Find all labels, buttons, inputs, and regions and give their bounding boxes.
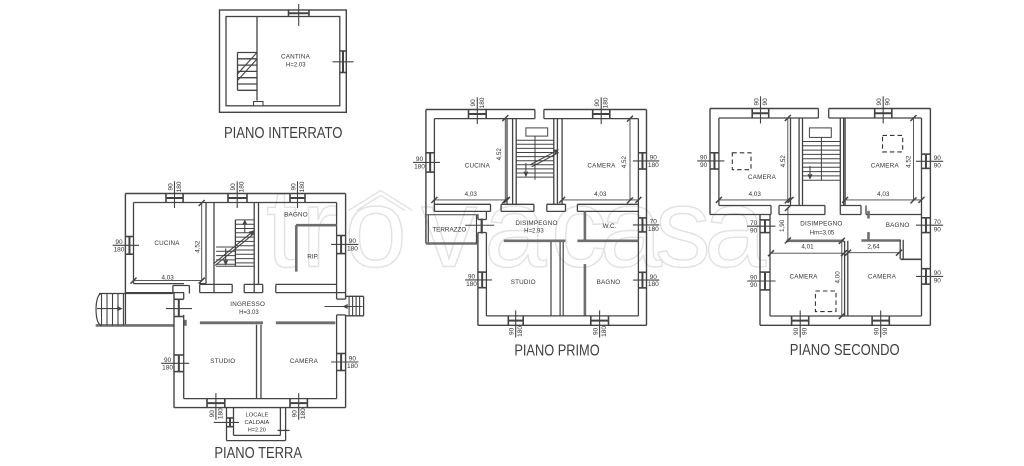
secondo top outer wall	[710, 108, 818, 110]
svg-text:4,52: 4,52	[780, 155, 787, 168]
svg-text:4,03: 4,03	[161, 274, 174, 281]
dimension 4,03 primo cucina width	[434, 199, 507, 201]
terrazzo door	[477, 220, 487, 233]
secondo camera tl east wall	[790, 118, 792, 206]
svg-text:CAMERA: CAMERA	[871, 162, 900, 169]
svg-text:PIANO SECONDO: PIANO SECONDO	[790, 342, 900, 359]
dimension 4,03 secondo camera tr width	[845, 199, 921, 201]
terra left outer wall	[124, 194, 126, 326]
camera bl north wall	[786, 240, 844, 243]
svg-text:180: 180	[162, 364, 173, 371]
svg-text:90: 90	[230, 183, 237, 191]
svg-text:o: o	[345, 166, 407, 291]
svg-text:1,90: 1,90	[779, 219, 786, 232]
studio west inner wall	[485, 211, 487, 316]
svg-text:90: 90	[115, 239, 123, 246]
svg-text:90: 90	[416, 156, 424, 163]
secondo west recess wall	[759, 215, 761, 326]
svg-text:90: 90	[468, 274, 476, 281]
dimension 4,03 terra cucina width	[134, 280, 202, 282]
terra top outer wall	[125, 193, 345, 195]
dimension 4,03 secondo camera tl width	[719, 199, 791, 201]
window 90/180 primo bagno bottom	[591, 320, 609, 322]
window 70/90 secondo bagno right	[925, 218, 927, 233]
window 90/90 secondo camera tr right	[925, 154, 927, 168]
window 90/180 terra studio bottom	[207, 402, 225, 404]
bagno secondo south wall	[861, 239, 900, 242]
svg-text:a: a	[704, 166, 767, 291]
window 90/180 terra camera right	[340, 354, 342, 371]
svg-text:INGRESSO: INGRESSO	[230, 301, 265, 308]
secondo right inner wall	[921, 118, 923, 316]
terra west lower outer wall	[173, 293, 175, 408]
locale caldaia box outer	[226, 408, 228, 441]
window 90/180 primo studio left	[481, 272, 483, 288]
dimension 4,52 terra cucina height	[201, 203, 203, 281]
watermark house roof over o	[349, 191, 413, 211]
svg-text:TERRAZZO: TERRAZZO	[432, 226, 466, 233]
terra stair treads upper flight	[235, 219, 254, 221]
caldaia right tick	[278, 429, 290, 431]
primo bottom inner wall	[486, 315, 638, 317]
porch curved end	[96, 294, 101, 326]
stair east wall	[253, 203, 255, 293]
wc west wall	[584, 211, 587, 240]
svg-text:4,52: 4,52	[496, 148, 503, 161]
svg-text:H=2.20: H=2.20	[248, 428, 266, 434]
svg-text:90: 90	[167, 183, 174, 191]
porch entry door	[178, 299, 180, 316]
svg-text:180: 180	[517, 326, 524, 337]
svg-text:90: 90	[470, 99, 477, 107]
svg-text:90: 90	[762, 98, 769, 106]
secondo stair stringer	[820, 137, 822, 180]
primo right outer wall	[646, 110, 648, 326]
svg-text:4,52: 4,52	[621, 155, 628, 168]
svg-text:90: 90	[876, 98, 883, 106]
secondo left inner wall	[718, 118, 720, 206]
terra stair diagonal	[214, 231, 254, 263]
svg-text:90: 90	[934, 162, 942, 169]
window 90/90 secondo camera tr top	[875, 112, 892, 114]
window 90/180 terra studio left	[178, 355, 180, 372]
porch parapet	[96, 324, 174, 327]
svg-text:180: 180	[176, 181, 183, 192]
dimension 4,00 secondo camera bl height	[841, 241, 843, 316]
svg-text:STUDIO: STUDIO	[210, 358, 235, 365]
svg-text:H=3.03: H=3.03	[239, 310, 259, 316]
rip partition walls	[296, 224, 337, 227]
window 90/180 primo camera right	[641, 153, 643, 169]
svg-text:90: 90	[793, 327, 800, 335]
studio north wall	[504, 240, 566, 243]
bagno secondo west wall	[867, 211, 870, 219]
svg-text:s: s	[655, 166, 711, 291]
svg-text:90: 90	[292, 410, 299, 418]
cucina south wall	[134, 283, 185, 285]
svg-text:PIANO TERRA: PIANO TERRA	[214, 445, 302, 462]
svg-text:PIANO PRIMO: PIANO PRIMO	[514, 342, 599, 359]
window 90/90 secondo camera br bottom	[872, 320, 889, 322]
terra bottom outer wall	[174, 407, 346, 409]
roof window camera tl	[732, 153, 751, 170]
svg-text:90: 90	[874, 327, 881, 335]
svg-text:180: 180	[300, 408, 307, 419]
window 70/90 secondo recess window	[764, 220, 766, 233]
terra top inner wall	[134, 202, 337, 204]
secondo left outer wall	[709, 109, 711, 215]
terra west lower inner wall	[183, 293, 185, 300]
svg-text:CAMERA: CAMERA	[790, 274, 819, 281]
ingresso west wall step	[172, 286, 174, 294]
svg-text:PIANO INTERRATO: PIANO INTERRATO	[224, 125, 343, 142]
svg-text:90: 90	[594, 99, 601, 107]
roof window camera bl	[815, 291, 836, 312]
svg-text:CAMERA: CAMERA	[290, 358, 319, 365]
interrato stair treads	[238, 52, 258, 54]
secondo right outer wall	[929, 109, 931, 326]
svg-text:90: 90	[349, 356, 357, 363]
porch stair arrow	[97, 308, 121, 310]
primo top inner wall	[434, 118, 535, 120]
terrazzo parapet	[427, 215, 429, 244]
svg-text:180: 180	[299, 181, 306, 192]
svg-text:70: 70	[750, 220, 758, 227]
window 70/180 primo wc right	[641, 218, 643, 232]
secondo stair down arrow	[809, 166, 811, 178]
svg-text:90: 90	[802, 327, 809, 335]
porch stair treads	[101, 294, 103, 326]
studio east wall	[550, 242, 552, 316]
terra right inner wall	[336, 203, 338, 300]
dimension 2,64 secondo camera br width	[848, 252, 899, 254]
window 90/90 secondo camera tl top	[752, 112, 769, 114]
terra stair up arrow	[244, 221, 246, 233]
svg-text:RIP.: RIP.	[307, 253, 319, 260]
svg-text:90: 90	[509, 327, 516, 335]
primo bottom outer wall	[478, 324, 647, 326]
svg-text:4,01: 4,01	[801, 244, 814, 251]
svg-text:BAGNO: BAGNO	[886, 222, 910, 229]
bagno secondo east step wall	[899, 240, 901, 259]
window 90/180 terra bagno top	[290, 197, 305, 199]
east entry stair	[346, 295, 364, 297]
window 90/90 secondo camera bl left	[764, 272, 766, 290]
secondo camera tr west wall	[844, 118, 846, 206]
primo stair east wall	[553, 119, 555, 205]
secondo stair east wall	[839, 118, 841, 206]
svg-text:90: 90	[750, 282, 758, 289]
window 90/90 secondo camera br right	[925, 269, 927, 284]
svg-text:BAGNO: BAGNO	[597, 279, 621, 286]
svg-text:DISIMPEGNO: DISIMPEGNO	[800, 221, 842, 228]
svg-text:90: 90	[349, 238, 357, 245]
svg-text:90: 90	[934, 278, 942, 285]
svg-text:CUCINA: CUCINA	[154, 240, 180, 247]
svg-text:70: 70	[650, 219, 658, 226]
svg-text:c: c	[551, 166, 607, 291]
roof window camera tr	[883, 135, 903, 152]
terra stair down arrow	[225, 249, 227, 265]
dimension 4,52 primo cucina height	[504, 118, 506, 200]
studio west outer wall	[477, 214, 479, 325]
primo stair landing	[526, 128, 548, 136]
terra bottom inner wall	[184, 398, 337, 400]
cucina/stair wall	[205, 203, 207, 284]
secondo top inner wall	[719, 117, 819, 119]
interrato door threshold	[254, 102, 264, 106]
secondo stair treads	[803, 141, 841, 143]
studio/camera partition wall	[256, 325, 258, 399]
window 90/180 primo cucina top	[469, 113, 487, 115]
svg-text:4,52: 4,52	[905, 155, 912, 168]
svg-text:90: 90	[164, 357, 172, 364]
window 90/180 primo camera top	[593, 113, 610, 115]
interrato stair partition wall	[256, 17, 258, 101]
svg-text:180: 180	[648, 226, 659, 233]
svg-text:180: 180	[479, 97, 486, 108]
svg-text:180: 180	[648, 281, 659, 288]
bagno north wall	[577, 240, 638, 243]
dimension 4,52 secondo camera tr height	[913, 118, 915, 200]
svg-text:180: 180	[414, 164, 425, 171]
svg-text:180: 180	[114, 246, 125, 253]
svg-text:90: 90	[650, 274, 658, 281]
secondo stair west wall	[798, 118, 800, 206]
svg-text:4,03: 4,03	[749, 191, 762, 198]
svg-text:90: 90	[934, 270, 942, 277]
window 90/180 terra cucina top	[166, 197, 183, 199]
window 90/180 terra stair top	[228, 197, 247, 199]
svg-text:180: 180	[601, 326, 608, 337]
secondo stair landing	[809, 128, 831, 137]
secondo bottom outer wall	[760, 324, 930, 326]
ingresso east door	[336, 299, 347, 315]
interrato top window	[289, 12, 310, 14]
svg-text:H=2.93: H=2.93	[524, 228, 544, 234]
svg-text:4,03: 4,03	[465, 191, 478, 198]
terra stair treads lower flight	[216, 246, 235, 248]
svg-text:90: 90	[750, 275, 758, 282]
primo stair treads	[516, 139, 554, 141]
svg-text:BAGNO: BAGNO	[284, 211, 308, 218]
primo left outer wall	[425, 110, 427, 244]
svg-text:180: 180	[466, 281, 477, 288]
camera divider wall	[844, 241, 846, 316]
dimension 4,01 secondo camera bl width	[771, 252, 844, 254]
svg-text:180: 180	[603, 97, 610, 108]
svg-text:90: 90	[700, 162, 708, 169]
svg-text:70: 70	[934, 219, 942, 226]
svg-text:90: 90	[934, 155, 942, 162]
svg-text:90: 90	[650, 155, 658, 162]
svg-text:180: 180	[648, 162, 659, 169]
svg-text:4,03: 4,03	[594, 191, 607, 198]
primo right inner wall	[637, 119, 639, 316]
primo disimpegno north wall	[434, 203, 490, 205]
svg-text:180: 180	[239, 181, 246, 192]
window 90/180 terra camera bottom	[290, 402, 307, 404]
interrato right window	[342, 51, 344, 73]
svg-text:STUDIO: STUDIO	[511, 279, 536, 286]
porch top edge	[99, 293, 173, 295]
svg-text:CAMERA: CAMERA	[868, 274, 897, 281]
svg-text:CAMERA: CAMERA	[748, 174, 777, 181]
svg-text:DISIMPEGNO: DISIMPEGNO	[515, 220, 557, 227]
svg-text:90: 90	[593, 327, 600, 335]
svg-text:CANTINA: CANTINA	[281, 54, 311, 61]
svg-text:4,00: 4,00	[834, 271, 841, 284]
dimension 4,52 primo camera height	[629, 119, 631, 201]
svg-text:r: r	[301, 166, 338, 291]
svg-text:180: 180	[347, 363, 358, 370]
svg-text:2,64: 2,64	[867, 243, 880, 250]
primo stair west wall	[512, 119, 514, 205]
window / caldaia left	[229, 418, 231, 427]
svg-text:90: 90	[885, 98, 892, 106]
svg-text:90: 90	[750, 227, 758, 234]
svg-text:Hm=3.05: Hm=3.05	[810, 231, 835, 237]
window 90/180 primo cucina left	[429, 153, 431, 172]
svg-text:90: 90	[290, 183, 297, 191]
svg-text:4,03: 4,03	[877, 191, 890, 198]
svg-text:90: 90	[753, 98, 760, 106]
dimension 1,90 secondo recess height	[787, 208, 789, 241]
svg-text:90: 90	[934, 226, 942, 233]
dimension 4,52 secondo camera tl height	[787, 118, 789, 200]
window 90/180 terra cucina left	[128, 237, 130, 255]
svg-text:180: 180	[217, 408, 224, 419]
primo stair diagonal arrow	[531, 150, 558, 164]
window 90/180 terra rip right	[340, 236, 342, 254]
svg-text:90: 90	[882, 327, 889, 335]
svg-text:90: 90	[700, 155, 708, 162]
window 90/90 secondo camera bl bottom	[792, 320, 809, 322]
svg-text:W.C.: W.C.	[603, 223, 617, 230]
svg-text:CALDAIA: CALDAIA	[244, 420, 269, 426]
svg-text:CUCINA: CUCINA	[465, 163, 491, 170]
locale caldaia box inner	[233, 408, 235, 436]
interrato stair diagonal	[238, 53, 258, 75]
window 90/180 primo studio bottom	[508, 320, 523, 322]
svg-text:LOCALE: LOCALE	[246, 413, 269, 419]
terra right outer wall	[345, 194, 347, 408]
window 90/90 secondo camera tl left	[713, 153, 715, 169]
svg-text:CAMERA: CAMERA	[587, 162, 616, 169]
secondo middle band walls	[719, 205, 771, 207]
svg-text:90: 90	[209, 410, 216, 418]
bagno west wall	[584, 264, 587, 316]
interrato inner wall	[226, 17, 340, 106]
svg-text:180: 180	[347, 246, 358, 253]
primo top outer wall	[426, 109, 535, 111]
secondo bottom inner wall	[770, 315, 922, 317]
window 90/180 primo bagno right	[641, 272, 643, 288]
interrato outer wall	[220, 10, 347, 112]
ingresso south wall	[200, 321, 263, 324]
primo camera west wall	[561, 119, 563, 205]
terra left inner wall	[133, 203, 135, 284]
svg-text:4,52: 4,52	[194, 240, 201, 253]
ingresso north wall	[200, 283, 233, 285]
dimension 4,03 primo camera width	[562, 199, 638, 201]
primo cucina east wall	[506, 119, 508, 205]
svg-text:H=2.03: H=2.03	[286, 62, 306, 68]
primo stair stringer	[534, 136, 536, 180]
primo left inner wall	[433, 119, 435, 212]
